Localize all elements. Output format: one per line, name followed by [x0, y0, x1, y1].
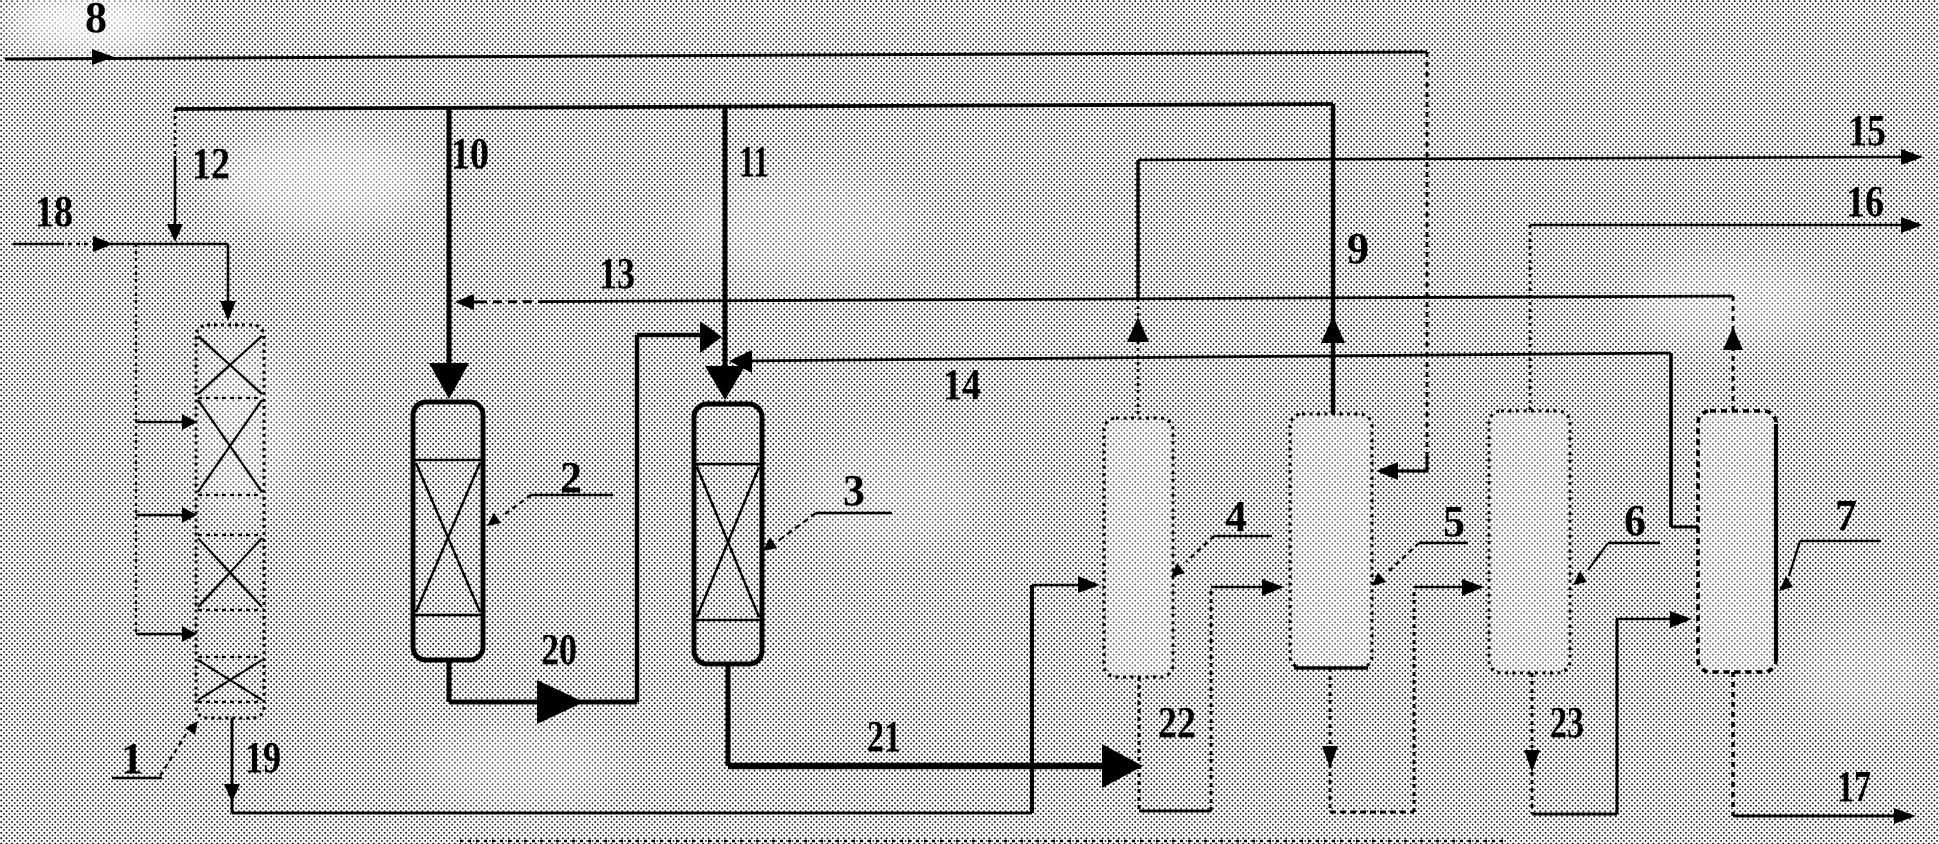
wire stream 15: [1138, 157, 1903, 418]
label 5: [1372, 497, 1468, 586]
wire stream 20: [449, 335, 702, 702]
arrow vessel 6 bottoms down: [1524, 750, 1540, 772]
svg-text:16: 16: [1846, 177, 1884, 226]
arrow vessel 5 bottoms down: [1322, 746, 1338, 768]
label 2: [487, 453, 613, 526]
svg-text:5: 5: [1443, 497, 1465, 546]
svg-text:8: 8: [85, 0, 107, 42]
arrow stream 21 big: [1102, 744, 1143, 788]
wire recycle header y106: [175, 104, 1333, 109]
wire stream 14: [733, 353, 1699, 527]
label 6: [1573, 496, 1660, 585]
vessel column 1: [196, 325, 264, 718]
label 3: [763, 466, 892, 551]
wire stream 16: [1530, 225, 1903, 411]
arrow into vessel 6: [1462, 579, 1484, 596]
arrow distributor lower: [182, 626, 197, 642]
svg-text:14: 14: [943, 360, 981, 409]
wire stream 19 column bottoms: [232, 585, 1078, 813]
wire vessel 6 bottoms to vessel 7: [1532, 619, 1670, 814]
arrow stream 8 into vessel 5: [1376, 462, 1398, 480]
arrow stream 20 into line 11: [700, 321, 722, 353]
arrow feed into column 1: [220, 301, 236, 321]
arrow stream 11 into reactor 3: [705, 366, 745, 400]
wire stream 9: [1331, 104, 1336, 414]
svg-text:4: 4: [1225, 492, 1247, 541]
svg-text:12: 12: [192, 139, 230, 188]
wire stream 12: [174, 109, 177, 226]
svg-text:17: 17: [1837, 762, 1871, 811]
svg-text:1: 1: [121, 734, 143, 783]
arrow stream 13 left end: [455, 294, 474, 310]
arrow vessel 4 overhead up: [1127, 317, 1149, 342]
svg-text:21: 21: [867, 712, 901, 761]
arrow stream 19 down: [224, 784, 240, 802]
label 1: [112, 721, 198, 783]
arrow stream 20 big mid: [537, 680, 584, 724]
label 4: [1171, 492, 1272, 577]
vessel 4: [1106, 420, 1171, 675]
arrow stream 16 end: [1901, 217, 1923, 233]
arrow vessel 7 overhead up: [1723, 327, 1743, 350]
arrow into vessel 7: [1670, 611, 1692, 628]
arrow stream 10 into reactor 2: [429, 363, 469, 399]
svg-text:15: 15: [1848, 106, 1886, 155]
arrow stream 12: [167, 224, 183, 242]
arrow stream 9 up: [1321, 316, 1345, 343]
vessel 7: [1700, 413, 1774, 670]
svg-text:11: 11: [739, 137, 769, 186]
svg-text:22: 22: [1158, 698, 1196, 747]
svg-text:7: 7: [1835, 491, 1857, 540]
svg-text:19: 19: [245, 733, 281, 782]
svg-text:6: 6: [1624, 496, 1646, 545]
label 7: [1779, 491, 1881, 591]
arrow stream 18: [93, 236, 113, 252]
vessel 5: [1292, 416, 1370, 666]
svg-text:18: 18: [35, 187, 73, 236]
svg-text:23: 23: [1550, 698, 1584, 747]
wire feed into column 1 top: [227, 244, 230, 303]
reactor 3: [694, 404, 762, 664]
wire stream 13: [458, 296, 1733, 411]
wire stream 8 top header: [5, 52, 1427, 471]
reactor 2: [413, 402, 483, 660]
wire bottom dotted border line: [460, 840, 1505, 843]
svg-text:3: 3: [843, 466, 865, 515]
arrow into vessel 5: [1262, 579, 1284, 596]
arrow distributor middle: [182, 507, 197, 523]
vessel 6: [1491, 413, 1568, 671]
svg-text:20: 20: [541, 625, 577, 674]
arrow stream 8: [92, 49, 114, 65]
wire distributor line left of column 1: [136, 244, 184, 634]
arrow stream 15 end: [1901, 149, 1923, 165]
arrow stream 14 into reactor 3 junction: [729, 350, 752, 373]
svg-text:9: 9: [1347, 224, 1369, 273]
arrow stream 19 into vessel 4: [1078, 576, 1100, 593]
wire stream 17 vessel 7 bottoms: [1733, 672, 1896, 816]
arrow distributor upper: [182, 414, 197, 430]
wire vessel 4 bottoms to vessel 5: [1139, 587, 1262, 811]
wire stream 11: [723, 107, 728, 368]
svg-text:13: 13: [599, 249, 635, 298]
svg-text:10: 10: [451, 129, 489, 178]
wire vessel 5 bottoms to vessel 6: [1330, 587, 1462, 812]
arrow stream 17 end: [1894, 808, 1916, 824]
wire stream 18: [13, 243, 228, 246]
wire stream 21: [728, 664, 1102, 766]
wire stream 10: [447, 108, 452, 365]
